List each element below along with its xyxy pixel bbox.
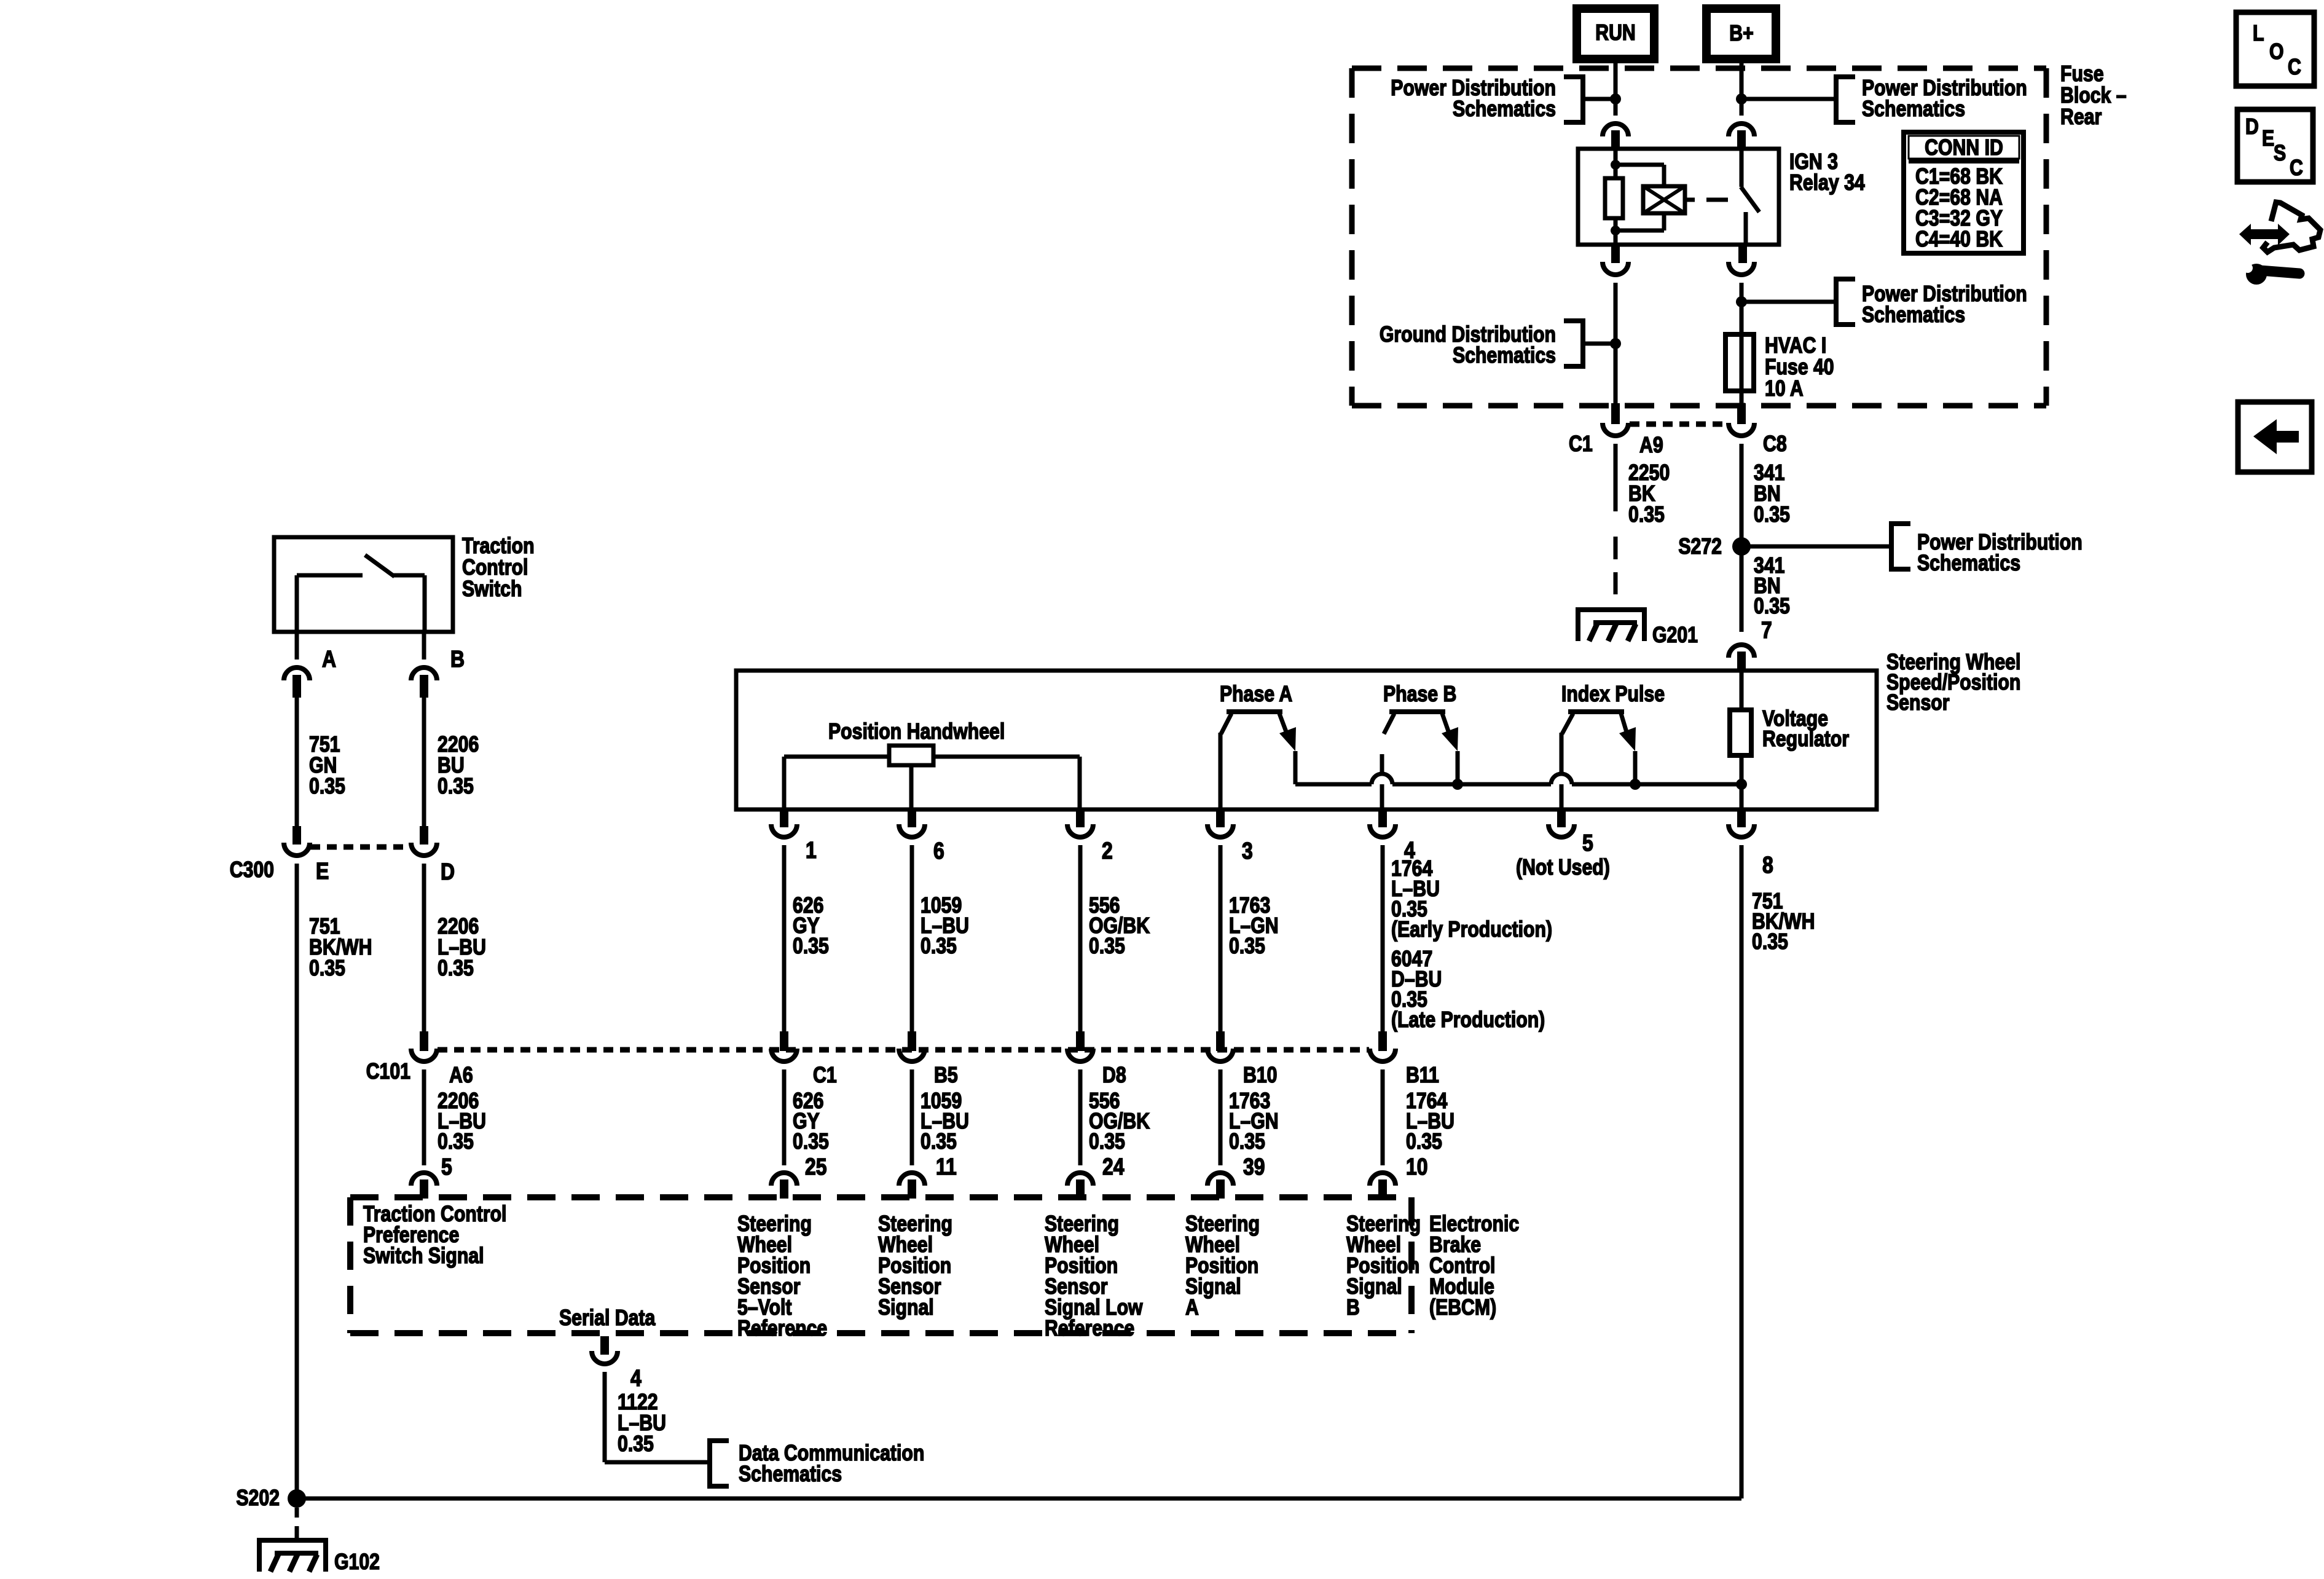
wire C101 to EBCM xyxy=(910,1069,914,1165)
svg-text:Schematics: Schematics xyxy=(739,1462,842,1487)
svg-text:0.35: 0.35 xyxy=(438,774,474,799)
connector sensor pin 7 xyxy=(1729,645,1754,658)
stub switch pin A xyxy=(292,675,301,698)
splice S202 xyxy=(288,1489,306,1508)
junction phase B output on bus xyxy=(1452,779,1463,790)
stub EBCM pin 24 xyxy=(1076,1179,1085,1199)
svg-text:B: B xyxy=(1346,1296,1360,1320)
stub C101 B10 xyxy=(1216,1031,1225,1051)
phase B left leg to pin 4 with hop xyxy=(1372,774,1392,784)
svg-text:G201: G201 xyxy=(1652,623,1698,648)
element left leg xyxy=(1562,714,1573,734)
junction on RUN feed xyxy=(1610,93,1621,104)
svg-text:C1: C1 xyxy=(1569,432,1593,457)
svg-text:L: L xyxy=(2253,22,2264,46)
stub fuse block C8 xyxy=(1737,403,1746,424)
svg-text:B+: B+ xyxy=(1729,22,1753,46)
svg-text:1: 1 xyxy=(806,837,817,863)
stub C101 D8 xyxy=(1076,1031,1085,1051)
connector C101 pin B11 xyxy=(1370,1049,1396,1061)
svg-text:10: 10 xyxy=(1406,1154,1428,1179)
wire 2250 BK upper xyxy=(1614,444,1618,511)
svg-text:Serial Data: Serial Data xyxy=(559,1306,656,1331)
svg-text:6: 6 xyxy=(933,838,944,864)
wire S202 to G102 xyxy=(295,1508,299,1518)
stub EBCM pin 11 xyxy=(908,1179,916,1199)
svg-text:D: D xyxy=(441,859,455,884)
connector C101 pin D8 xyxy=(1067,1049,1093,1061)
svg-text:RUN: RUN xyxy=(1595,21,1636,45)
stub EBCM pin 5 xyxy=(420,1179,428,1199)
connector C101 pin C1 xyxy=(771,1049,797,1061)
wire 2206 L-BU to C101 xyxy=(422,864,426,1033)
wire 751 GN xyxy=(295,698,299,826)
svg-text:A: A xyxy=(1185,1296,1199,1320)
dashed actuator link xyxy=(1706,198,1728,202)
wire sensor pin to C101 xyxy=(1219,845,1223,1033)
wire pot end to pin 2 xyxy=(1078,757,1082,809)
junction bus to regulator leg xyxy=(1736,779,1747,790)
voltage regulator resistor xyxy=(1730,710,1751,755)
svg-text:0.35: 0.35 xyxy=(618,1432,654,1457)
relay coil branch wires xyxy=(1615,163,1664,167)
wire pin7 into regulator xyxy=(1740,671,1744,710)
wire pot wiper to pin 6 xyxy=(909,765,914,809)
svg-text:B: B xyxy=(450,646,465,672)
connector C101 pin B10 xyxy=(1207,1049,1233,1061)
svg-text:S: S xyxy=(2274,141,2286,166)
switch contact wires xyxy=(295,575,299,632)
svg-text:B5: B5 xyxy=(934,1063,958,1088)
svg-text:0.35: 0.35 xyxy=(1089,934,1125,959)
svg-text:C: C xyxy=(2288,55,2301,80)
index left leg to pin 5 with hop xyxy=(1551,774,1572,784)
svg-text:2: 2 xyxy=(1102,838,1113,864)
svg-text:25: 25 xyxy=(805,1154,827,1179)
svg-text:0.35: 0.35 xyxy=(438,956,474,981)
svg-text:Schematics: Schematics xyxy=(1862,97,1965,122)
stub sensor pin 3 xyxy=(1216,809,1225,827)
wire coil to actuator xyxy=(1685,198,1695,202)
svg-text:B10: B10 xyxy=(1243,1063,1277,1088)
stub sensor pin 1 xyxy=(780,809,788,827)
svg-text:5: 5 xyxy=(1582,830,1593,856)
svg-text:(Early Production): (Early Production) xyxy=(1391,918,1552,942)
svg-text:0.35: 0.35 xyxy=(1089,1130,1125,1154)
connector relay out (right) xyxy=(1729,262,1754,275)
svg-text:0.35: 0.35 xyxy=(438,1130,474,1154)
connector switch pin A xyxy=(284,667,310,680)
wire C101 to EBCM xyxy=(1381,1069,1385,1165)
svg-text:C4=40 BK: C4=40 BK xyxy=(1915,227,2003,252)
svg-text:Signal: Signal xyxy=(878,1296,934,1320)
svg-text:10 A: 10 A xyxy=(1765,377,1804,401)
bracket Power Distribution (RUN) xyxy=(1564,77,1583,122)
ground G102 xyxy=(259,1540,326,1572)
connector EBCM pin 5 xyxy=(411,1173,437,1186)
svg-text:0.35: 0.35 xyxy=(921,1130,957,1154)
wire RUN feed xyxy=(1614,59,1618,116)
junction relay coil bottom xyxy=(1611,226,1620,235)
internal bus wire xyxy=(1295,782,1372,787)
wire sensor pin to C101 xyxy=(1078,845,1083,1033)
connector C101 pin B5 xyxy=(899,1049,925,1061)
stub C101 A6 xyxy=(420,1031,428,1051)
svg-text:0.35: 0.35 xyxy=(1628,503,1665,527)
wire B+ feed xyxy=(1740,59,1744,116)
stub EBCM serial data pin 4 xyxy=(600,1336,609,1355)
wire 1122 L-BU xyxy=(603,1372,607,1462)
bracket Data Communication xyxy=(710,1441,729,1486)
connector line C101 xyxy=(438,1047,1369,1053)
svg-text:(Late Production): (Late Production) xyxy=(1391,1008,1545,1033)
svg-text:0.35: 0.35 xyxy=(921,934,957,959)
junction ground distribution tap xyxy=(1610,338,1621,349)
wire relay right output down xyxy=(1740,283,1744,404)
connector serial data pin 4 xyxy=(592,1351,618,1364)
stub sensor pin 6 xyxy=(908,809,916,827)
svg-text:Position Handwheel: Position Handwheel xyxy=(828,720,1005,744)
relay IGN 3 Relay 34 box xyxy=(1578,149,1779,245)
hall element Index Pulse xyxy=(1568,709,1624,714)
svg-text:Switch Signal: Switch Signal xyxy=(363,1244,484,1269)
wire relay switch output xyxy=(1744,212,1748,245)
wire 2206 BU xyxy=(422,698,426,826)
svg-text:0.35: 0.35 xyxy=(1229,934,1265,959)
svg-text:Schematics: Schematics xyxy=(1453,344,1556,368)
wire regulator to pin 8 xyxy=(1740,755,1744,809)
terminal box RUN xyxy=(1577,9,1654,59)
svg-text:5: 5 xyxy=(441,1154,452,1179)
wire switch A xyxy=(295,632,299,660)
svg-text:0.35: 0.35 xyxy=(1754,503,1790,527)
stub sensor pin 5 xyxy=(1557,809,1566,827)
svg-text:Rear: Rear xyxy=(2060,105,2102,130)
svg-text:A6: A6 xyxy=(449,1063,473,1088)
svg-text:A: A xyxy=(322,646,336,672)
svg-text:Phase B: Phase B xyxy=(1383,682,1456,707)
steering wheel speed/position sensor box xyxy=(736,671,1877,809)
connector EBCM pin 11 xyxy=(899,1173,925,1186)
svg-text:C300: C300 xyxy=(230,858,274,883)
traction control switch box xyxy=(274,537,453,632)
svg-text:C101: C101 xyxy=(366,1060,410,1084)
wire 341 BN upper xyxy=(1740,444,1744,546)
stub C101 C1 xyxy=(780,1031,788,1051)
splice S272 xyxy=(1732,537,1751,556)
fuse HVAC I Fuse 40 10A xyxy=(1725,334,1754,391)
bracket Ground Distribution xyxy=(1564,321,1583,366)
wire relay coil bottom xyxy=(1614,218,1618,245)
connector EBCM pin 39 xyxy=(1207,1173,1233,1186)
svg-text:3: 3 xyxy=(1242,838,1253,864)
wire C101 to EBCM xyxy=(782,1069,787,1165)
stub relay out (right) xyxy=(1738,245,1747,263)
stub relay pin (RUN side) xyxy=(1611,130,1620,149)
wire bracket to left leg xyxy=(1583,342,1615,346)
connector sensor pin 2 xyxy=(1067,824,1093,837)
switch blade (open) xyxy=(365,555,395,577)
stub sensor pin 8 xyxy=(1737,809,1746,827)
svg-text:0.35: 0.35 xyxy=(309,956,345,981)
junction power distribution tap xyxy=(1736,296,1747,307)
wire sensor pin to C101 xyxy=(1381,845,1385,1033)
svg-text:Relay 34: Relay 34 xyxy=(1789,171,1865,195)
junction relay coil top xyxy=(1611,160,1620,170)
bracket Power Distribution (S272) xyxy=(1891,524,1910,569)
svg-text:4: 4 xyxy=(630,1365,642,1391)
svg-text:0.35: 0.35 xyxy=(1754,594,1790,619)
wire 341 BN lower xyxy=(1740,546,1744,632)
svg-text:0.35: 0.35 xyxy=(309,774,345,799)
wire 751 BK/WH to S202 xyxy=(295,864,299,1498)
wire relay left output down xyxy=(1614,283,1618,404)
icon hand with double arrow xyxy=(2239,224,2290,245)
connector sensor pin 5 xyxy=(1549,824,1574,837)
wire sensor pin to C101 xyxy=(910,845,914,1033)
connector sensor pin 6 xyxy=(899,824,925,837)
connector relay pin (RUN side) xyxy=(1603,124,1628,136)
svg-text:D: D xyxy=(2245,115,2259,140)
wire 2250 BK dashed to ground xyxy=(1614,537,1618,559)
svg-text:D8: D8 xyxy=(1102,1063,1126,1088)
svg-text:E: E xyxy=(2262,127,2274,151)
potentiometer position handwheel xyxy=(784,755,889,759)
wire bracket to RUN feed xyxy=(1583,97,1615,101)
wire C101 to EBCM xyxy=(1078,1069,1083,1165)
wire S202 ground bus xyxy=(297,1497,1741,1501)
svg-text:11: 11 xyxy=(936,1154,957,1179)
junction index output on bus xyxy=(1630,779,1641,790)
element output arrow xyxy=(1279,714,1289,738)
svg-text:0.35: 0.35 xyxy=(1752,930,1788,955)
svg-text:A9: A9 xyxy=(1639,433,1663,458)
hall element Phase A xyxy=(1227,709,1282,714)
icon wrench xyxy=(2246,264,2267,285)
connector C300 pin E xyxy=(284,843,310,856)
connector C101 pin A6 xyxy=(411,1049,437,1061)
wire 751 BK/WH pin8 down to S202 bus xyxy=(1740,845,1744,1498)
svg-text:24: 24 xyxy=(1102,1154,1125,1179)
svg-text:Switch: Switch xyxy=(462,577,522,602)
connector sensor pin 1 xyxy=(771,824,797,837)
svg-text:Phase A: Phase A xyxy=(1220,682,1292,707)
svg-text:C1: C1 xyxy=(813,1063,837,1088)
ground G201 xyxy=(1578,610,1644,641)
relay coil resistor xyxy=(1605,178,1623,218)
svg-text:0.35: 0.35 xyxy=(793,1130,829,1154)
svg-text:CONN ID: CONN ID xyxy=(1925,136,2003,160)
stub sensor pin 7 xyxy=(1737,652,1746,671)
wire C101 to EBCM xyxy=(422,1069,426,1165)
svg-text:0.35: 0.35 xyxy=(793,934,829,959)
stub C300 E xyxy=(292,826,301,845)
svg-text:7: 7 xyxy=(1761,617,1772,643)
svg-text:0.35: 0.35 xyxy=(1406,1130,1442,1154)
fuse block dashed outline xyxy=(1352,66,2046,71)
svg-text:S272: S272 xyxy=(1678,535,1722,559)
junction on B+ feed xyxy=(1736,93,1747,104)
connector C8 xyxy=(1729,423,1754,436)
connector C1 pin A9 xyxy=(1603,423,1628,436)
connector relay pin (B+ side) xyxy=(1729,124,1754,136)
svg-text:(Not Used): (Not Used) xyxy=(1516,856,1610,880)
connector EBCM pin 25 xyxy=(771,1173,797,1186)
connector relay out (left) xyxy=(1603,262,1628,275)
svg-text:0.35: 0.35 xyxy=(1229,1130,1265,1154)
svg-text:Schematics: Schematics xyxy=(1453,97,1556,122)
connector EBCM pin 24 xyxy=(1067,1173,1093,1186)
svg-text:Sensor: Sensor xyxy=(1886,691,1950,715)
element left leg xyxy=(1384,714,1394,734)
wire to bracket (fuse feed) xyxy=(1744,300,1836,304)
svg-text:Reference: Reference xyxy=(1045,1317,1134,1341)
svg-text:C: C xyxy=(2290,156,2303,181)
svg-text:Schematics: Schematics xyxy=(1862,303,1965,328)
wire pot end to pin 1 xyxy=(782,757,787,809)
stub C101 B5 xyxy=(908,1031,916,1051)
stub fuse block C1 A9 xyxy=(1611,403,1620,424)
EBCM dashed outline xyxy=(350,1194,1411,1200)
icon LOC box xyxy=(2236,12,2314,86)
element left leg xyxy=(1221,714,1231,734)
wire S272 to power distribution xyxy=(1741,545,1891,549)
element output arrow xyxy=(1621,714,1628,738)
svg-text:Schematics: Schematics xyxy=(1917,551,2020,576)
icon back arrow box xyxy=(2238,402,2312,472)
stub EBCM pin 39 xyxy=(1216,1179,1225,1199)
connector sensor pin 8 xyxy=(1729,824,1754,837)
stub switch pin B xyxy=(420,675,428,698)
svg-text:G102: G102 xyxy=(334,1550,380,1575)
wire B+ feed to bracket xyxy=(1741,97,1836,101)
element output arrow xyxy=(1442,714,1451,738)
connector sensor pin 4 xyxy=(1370,824,1396,837)
relay switch blade xyxy=(1741,187,1759,212)
svg-text:B11: B11 xyxy=(1406,1063,1439,1088)
svg-text:(EBCM): (EBCM) xyxy=(1429,1296,1496,1320)
connector sensor pin 3 xyxy=(1207,824,1233,837)
stub sensor pin 4 xyxy=(1378,809,1387,827)
svg-text:O: O xyxy=(2269,40,2284,65)
wire C101 to EBCM xyxy=(1219,1069,1223,1165)
connector line C1-C8 xyxy=(1630,422,1728,427)
connector EBCM pin 10 xyxy=(1370,1173,1396,1186)
stub EBCM pin 10 xyxy=(1378,1179,1387,1199)
wire sensor pin to C101 xyxy=(782,845,787,1033)
terminal box B+ xyxy=(1706,9,1776,59)
stub EBCM pin 25 xyxy=(780,1179,788,1199)
wire switch B xyxy=(422,632,426,660)
connector switch pin B xyxy=(411,667,437,680)
hall element Phase B xyxy=(1389,709,1445,714)
wire serial data to bracket xyxy=(605,1460,710,1465)
svg-text:Index Pulse: Index Pulse xyxy=(1561,682,1665,707)
svg-text:39: 39 xyxy=(1243,1154,1265,1179)
CONN ID table xyxy=(1904,132,2024,253)
connector C300 pin D xyxy=(411,843,437,856)
stub C101 B11 xyxy=(1378,1031,1387,1051)
stub C300 D xyxy=(420,826,428,845)
bracket Power Distribution (B+) xyxy=(1836,77,1855,122)
wire relay switch common xyxy=(1740,149,1744,187)
stub sensor pin 2 xyxy=(1076,809,1085,827)
icon DESC box xyxy=(2237,109,2313,182)
svg-text:Regulator: Regulator xyxy=(1762,727,1849,752)
svg-text:S202: S202 xyxy=(236,1486,280,1511)
phase A left leg to pin 3 xyxy=(1219,733,1223,809)
bracket Power Distribution (fuse feed) xyxy=(1836,279,1855,325)
svg-text:Reference: Reference xyxy=(737,1317,827,1341)
svg-text:C8: C8 xyxy=(1763,432,1787,457)
wire relay coil top xyxy=(1614,149,1618,178)
connector line C300 xyxy=(310,845,408,850)
svg-text:E: E xyxy=(316,858,329,884)
stub relay pin (B+ side) xyxy=(1737,130,1746,149)
stub relay out (left) xyxy=(1611,245,1620,263)
relay coil symbol xyxy=(1643,186,1685,213)
svg-text:8: 8 xyxy=(1762,852,1773,878)
